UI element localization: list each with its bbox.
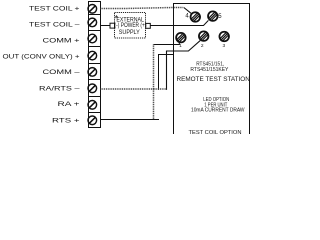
wire supply (+) to terminal 5 — [150, 20, 208, 25]
svg-text:3: 3 — [222, 43, 225, 49]
svg-text:TEST COIL –: TEST COIL – — [29, 22, 80, 29]
svg-text:5: 5 — [218, 14, 222, 20]
terminal RA + — [88, 101, 97, 110]
terminal 2 — [199, 31, 209, 41]
terminal 5 — [208, 11, 218, 21]
supply terminal (-) — [110, 23, 115, 28]
terminal TEST COIL - — [88, 18, 97, 27]
wire diagonal into terminal 4 — [184, 8, 192, 14]
wire terminal 1 to grey riser — [154, 42, 180, 44]
wire RA/RTS - to station edge — [159, 55, 174, 90]
terminal COMM - — [88, 68, 97, 77]
wire terminal 2 to RTS + — [167, 41, 201, 90]
wire TEST COIL - to supply (-) — [101, 25, 111, 27]
terminal strip block — [88, 2, 100, 128]
wire RTS + — [101, 119, 160, 121]
wire TEST COIL + to terminal 4 (grey run) — [101, 8, 184, 9]
svg-text:TEST COIL +: TEST COIL + — [29, 5, 80, 12]
svg-text:TEST COIL OPTION: TEST COIL OPTION — [189, 130, 242, 134]
svg-text:RA/RTS –: RA/RTS – — [39, 86, 80, 93]
power supply box — [115, 13, 146, 39]
wire RA/RTS - alternate (grey) — [101, 88, 167, 90]
svg-text:2: 2 — [201, 43, 204, 49]
terminal TEST COIL + — [88, 5, 97, 14]
svg-text:COMM +: COMM + — [43, 38, 80, 45]
terminal 1 — [176, 33, 186, 43]
remote test station box — [174, 4, 250, 137]
terminal 3 — [219, 32, 229, 42]
wire grey riser to RTS + (alternate) — [153, 45, 155, 120]
terminal COMM + — [88, 34, 97, 43]
svg-text:REMOTE TEST STATION: REMOTE TEST STATION — [177, 76, 251, 83]
svg-text:10mA CURRENT DRAW: 10mA CURRENT DRAW — [191, 108, 245, 114]
svg-text:OUT (CONV ONLY) +: OUT (CONV ONLY) + — [3, 54, 80, 61]
terminal OUT (CONV ONLY) + — [88, 51, 97, 60]
svg-text:4: 4 — [185, 14, 189, 20]
supply terminal (+) — [146, 23, 151, 28]
svg-text:RTS451/151KEY: RTS451/151KEY — [190, 67, 228, 73]
terminal RA/RTS - — [88, 84, 97, 93]
svg-text:RA +: RA + — [58, 101, 80, 108]
svg-text:RTS +: RTS + — [52, 118, 80, 125]
svg-text:SUPPLY: SUPPLY — [119, 29, 140, 36]
terminal 4 — [191, 12, 201, 22]
terminal RTS + — [88, 116, 97, 125]
svg-text:COMM –: COMM – — [43, 69, 80, 76]
